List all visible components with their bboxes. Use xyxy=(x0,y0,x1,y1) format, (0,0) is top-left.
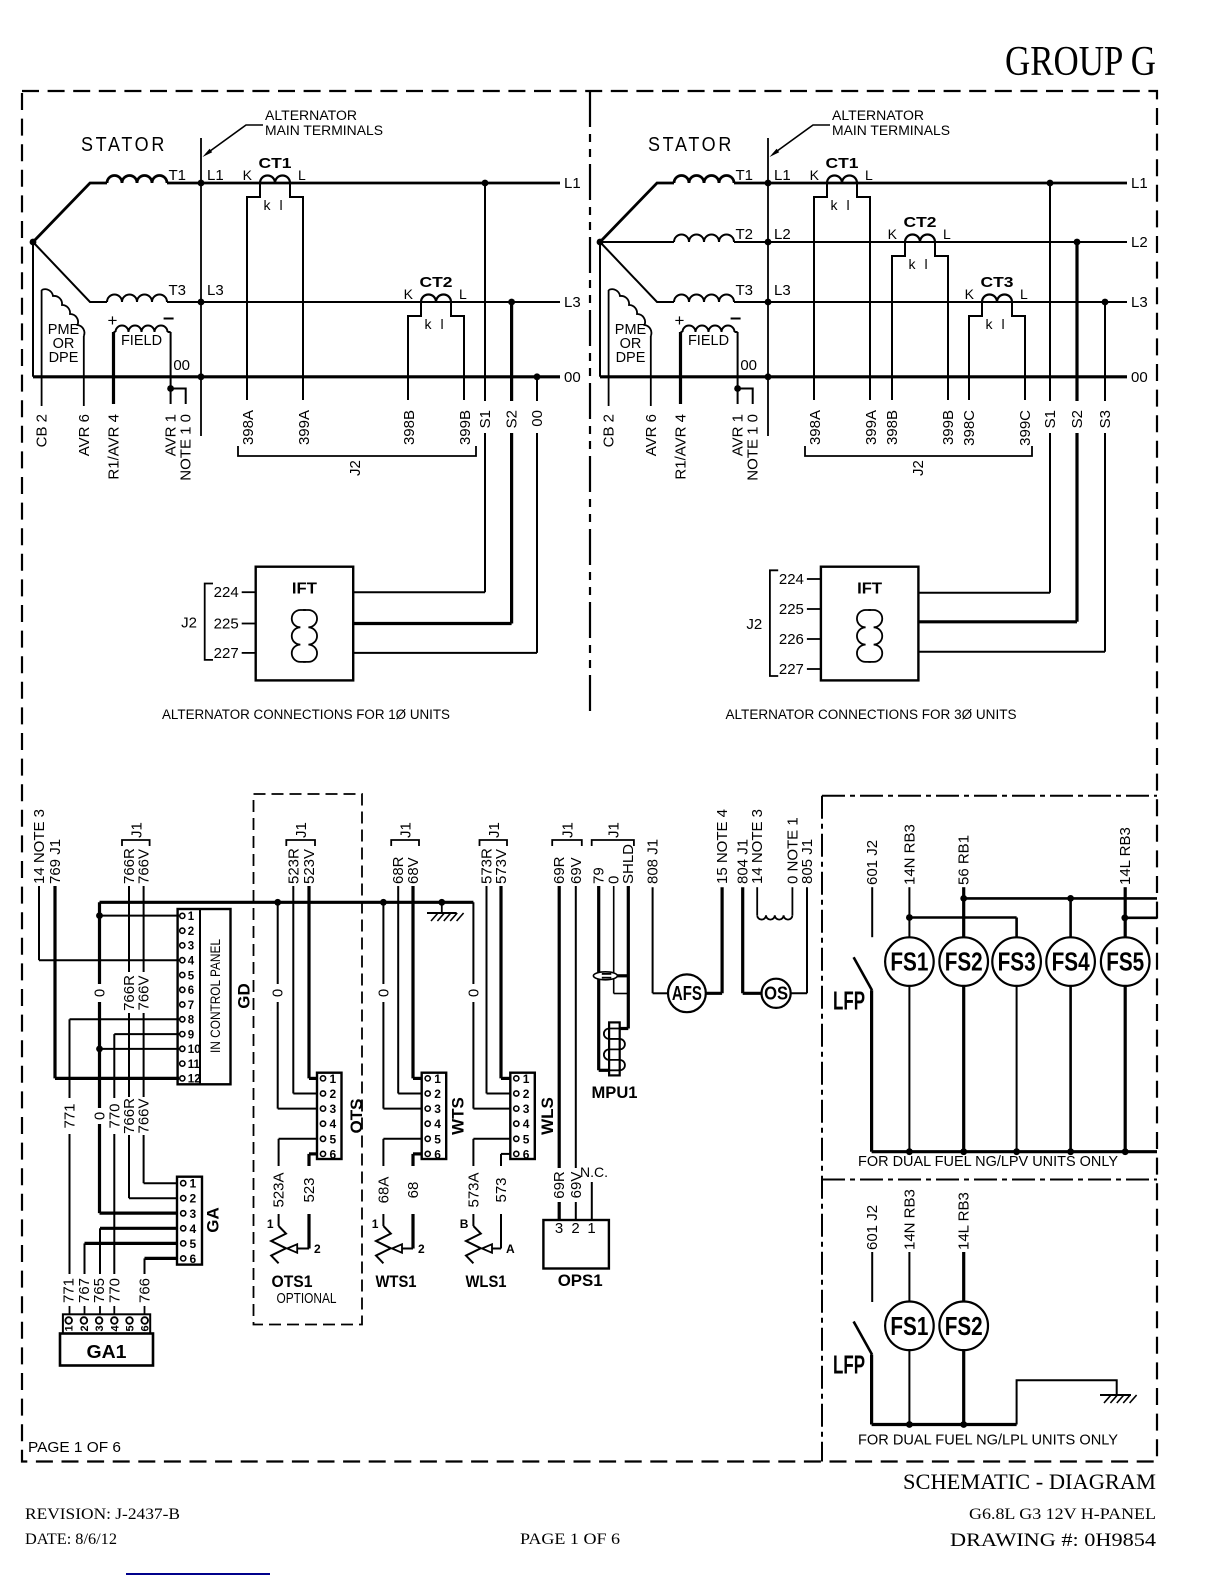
svg-text:S3: S3 xyxy=(1097,410,1114,428)
svg-text:k: k xyxy=(425,316,433,332)
svg-text:6: 6 xyxy=(188,985,194,997)
svg-text:L3: L3 xyxy=(1131,294,1148,311)
svg-text:5: 5 xyxy=(523,1132,530,1146)
svg-text:J2: J2 xyxy=(910,460,927,476)
svg-text:4: 4 xyxy=(330,1117,337,1131)
svg-text:S2: S2 xyxy=(504,410,521,428)
svg-text:L3: L3 xyxy=(774,282,791,299)
svg-text:GROUP G: GROUP G xyxy=(1005,39,1156,85)
svg-text:K: K xyxy=(965,286,975,302)
svg-text:2: 2 xyxy=(314,1242,321,1256)
svg-text:523V: 523V xyxy=(301,849,318,884)
svg-text:CT3: CT3 xyxy=(981,274,1014,291)
svg-text:399A: 399A xyxy=(296,410,313,445)
svg-text:L: L xyxy=(1020,286,1028,302)
svg-text:J1: J1 xyxy=(128,822,145,838)
svg-text:224: 224 xyxy=(779,571,804,588)
svg-text:LFP: LFP xyxy=(833,1350,865,1380)
svg-text:J1: J1 xyxy=(293,822,310,838)
svg-text:WLS: WLS xyxy=(538,1097,557,1135)
svg-text:227: 227 xyxy=(214,645,239,662)
svg-text:11: 11 xyxy=(188,1059,201,1071)
svg-text:7: 7 xyxy=(188,1000,194,1012)
svg-text:14L RB3: 14L RB3 xyxy=(956,1192,973,1250)
svg-text:10: 10 xyxy=(188,1044,201,1056)
svg-text:226: 226 xyxy=(779,631,804,648)
svg-text:L1: L1 xyxy=(564,175,581,192)
svg-text:J2: J2 xyxy=(746,616,762,633)
svg-text:573: 573 xyxy=(493,1177,510,1202)
svg-text:GD: GD xyxy=(235,983,254,1009)
svg-text:ALTERNATOR: ALTERNATOR xyxy=(832,108,924,123)
svg-text:6: 6 xyxy=(140,1325,152,1331)
svg-text:601 J2: 601 J2 xyxy=(864,840,881,885)
svg-text:STATOR: STATOR xyxy=(81,134,167,156)
svg-text:IN CONTROL PANEL: IN CONTROL PANEL xyxy=(207,939,223,1053)
svg-text:FIELD: FIELD xyxy=(121,333,162,349)
svg-text:0: 0 xyxy=(92,989,109,997)
svg-text:T1: T1 xyxy=(168,167,186,184)
svg-text:4: 4 xyxy=(190,1222,197,1236)
svg-text:770: 770 xyxy=(106,1278,123,1303)
svg-text:OTS: OTS xyxy=(347,1099,366,1134)
svg-text:399B: 399B xyxy=(940,410,957,445)
svg-text:J1: J1 xyxy=(486,822,503,838)
svg-text:523: 523 xyxy=(301,1177,318,1202)
svg-text:3: 3 xyxy=(188,941,194,953)
svg-text:l: l xyxy=(924,256,927,272)
svg-text:14 NOTE 3: 14 NOTE 3 xyxy=(31,809,48,884)
svg-text:L2: L2 xyxy=(1131,234,1148,251)
svg-text:GA1: GA1 xyxy=(87,1342,127,1362)
svg-text:398A: 398A xyxy=(240,410,257,445)
svg-text:L3: L3 xyxy=(564,294,581,311)
svg-text:14N RB3: 14N RB3 xyxy=(901,824,918,885)
svg-text:k: k xyxy=(264,197,272,213)
svg-text:k: k xyxy=(986,316,994,332)
svg-text:DATE: 8/6/12: DATE: 8/6/12 xyxy=(25,1531,117,1548)
svg-text:6: 6 xyxy=(434,1147,441,1161)
svg-text:56 RB1: 56 RB1 xyxy=(956,835,973,885)
svg-text:J1: J1 xyxy=(560,822,577,838)
svg-text:T2: T2 xyxy=(735,226,753,243)
svg-text:GA: GA xyxy=(204,1207,223,1233)
svg-text:523R: 523R xyxy=(285,848,302,884)
svg-text:9: 9 xyxy=(188,1029,194,1041)
svg-text:FS5: FS5 xyxy=(1106,947,1144,977)
svg-text:l: l xyxy=(846,197,849,213)
svg-text:1: 1 xyxy=(523,1072,530,1086)
svg-text:766V: 766V xyxy=(136,975,153,1010)
svg-text:399A: 399A xyxy=(863,410,880,445)
svg-text:FS4: FS4 xyxy=(1052,947,1090,977)
svg-text:227: 227 xyxy=(779,661,804,678)
svg-text:1: 1 xyxy=(64,1325,76,1331)
svg-text:IFT: IFT xyxy=(292,581,317,598)
svg-text:WLS1: WLS1 xyxy=(466,1272,507,1291)
svg-text:L: L xyxy=(943,226,951,242)
svg-text:R1/AVR 4: R1/AVR 4 xyxy=(106,414,123,480)
svg-text:FIELD: FIELD xyxy=(688,333,729,349)
svg-text:2: 2 xyxy=(79,1325,91,1331)
svg-text:4: 4 xyxy=(109,1325,121,1332)
svg-text:+: + xyxy=(108,311,118,330)
svg-text:1: 1 xyxy=(188,911,195,923)
svg-text:00: 00 xyxy=(740,357,757,374)
svg-text:00: 00 xyxy=(564,369,581,386)
svg-text:69V: 69V xyxy=(568,1172,585,1199)
svg-text:00: 00 xyxy=(173,357,190,374)
svg-text:CT2: CT2 xyxy=(904,214,937,231)
svg-text:AFS: AFS xyxy=(672,983,702,1005)
svg-text:6: 6 xyxy=(330,1147,337,1161)
svg-text:L1: L1 xyxy=(1131,175,1148,192)
svg-text:ALTERNATOR CONNECTIONS FOR 1Ø: ALTERNATOR CONNECTIONS FOR 1Ø UNITS xyxy=(162,707,450,722)
svg-text:SCHEMATIC - DIAGRAM: SCHEMATIC - DIAGRAM xyxy=(903,1469,1156,1494)
svg-text:1: 1 xyxy=(434,1072,441,1086)
svg-text:SHLD: SHLD xyxy=(620,844,637,884)
svg-text:523A: 523A xyxy=(271,1172,288,1207)
svg-text:FS1: FS1 xyxy=(890,1311,928,1341)
svg-text:3: 3 xyxy=(330,1102,337,1116)
svg-text:B: B xyxy=(460,1217,469,1231)
svg-text:OS: OS xyxy=(764,984,788,1004)
svg-text:15 NOTE 4: 15 NOTE 4 xyxy=(714,809,731,884)
svg-text:14 NOTE 3: 14 NOTE 3 xyxy=(749,809,766,884)
svg-text:68V: 68V xyxy=(405,857,422,884)
svg-text:14N RB3: 14N RB3 xyxy=(901,1189,918,1250)
svg-text:CB 2: CB 2 xyxy=(34,414,51,447)
svg-text:R1/AVR 4: R1/AVR 4 xyxy=(673,414,690,480)
svg-text:573V: 573V xyxy=(493,849,510,884)
svg-text:LFP: LFP xyxy=(833,985,865,1015)
svg-text:1: 1 xyxy=(190,1177,197,1191)
svg-text:69R: 69R xyxy=(551,856,568,884)
svg-text:J1: J1 xyxy=(605,822,622,838)
svg-text:WTS: WTS xyxy=(449,1097,468,1135)
svg-text:STATOR: STATOR xyxy=(648,134,734,156)
svg-text:3: 3 xyxy=(94,1325,106,1331)
svg-text:WTS1: WTS1 xyxy=(376,1272,417,1291)
svg-text:MAIN TERMINALS: MAIN TERMINALS xyxy=(265,123,383,138)
svg-text:68A: 68A xyxy=(375,1177,392,1204)
svg-text:6: 6 xyxy=(190,1252,197,1266)
svg-text:K: K xyxy=(810,167,820,183)
svg-text:69R: 69R xyxy=(551,1171,568,1199)
svg-text:805 J1: 805 J1 xyxy=(799,839,816,884)
svg-text:S1: S1 xyxy=(1042,410,1059,428)
svg-text:T3: T3 xyxy=(168,282,186,299)
svg-text:CT1: CT1 xyxy=(826,155,859,172)
svg-text:2: 2 xyxy=(434,1087,441,1101)
svg-text:2: 2 xyxy=(571,1220,579,1237)
svg-text:5: 5 xyxy=(188,970,195,982)
svg-text:l: l xyxy=(1001,316,1004,332)
svg-text:601 J2: 601 J2 xyxy=(864,1205,881,1250)
svg-text:12: 12 xyxy=(188,1074,201,1086)
svg-text:224: 224 xyxy=(214,584,239,601)
svg-text:L3: L3 xyxy=(207,282,224,299)
svg-text:ALTERNATOR: ALTERNATOR xyxy=(265,108,357,123)
svg-text:K: K xyxy=(404,286,414,302)
svg-text:T3: T3 xyxy=(735,282,753,299)
svg-text:J1: J1 xyxy=(398,822,415,838)
svg-text:399B: 399B xyxy=(457,410,474,445)
svg-text:L: L xyxy=(298,167,306,183)
svg-text:NOTE 1 0: NOTE 1 0 xyxy=(745,414,762,481)
svg-text:DRAWING #: 0H9854: DRAWING #: 0H9854 xyxy=(950,1530,1157,1551)
svg-text:REVISION: J-2437-B: REVISION: J-2437-B xyxy=(25,1506,180,1523)
svg-text:398B: 398B xyxy=(884,410,901,445)
svg-text:CT2: CT2 xyxy=(420,274,453,291)
svg-text:A: A xyxy=(506,1242,515,1256)
svg-text:AVR 6: AVR 6 xyxy=(76,414,93,456)
svg-text:FOR DUAL FUEL NG/LPV UNITS ONL: FOR DUAL FUEL NG/LPV UNITS ONLY xyxy=(858,1153,1118,1170)
svg-text:OPTIONAL: OPTIONAL xyxy=(277,1290,337,1307)
svg-text:S1: S1 xyxy=(477,410,494,428)
svg-text:5: 5 xyxy=(190,1237,197,1251)
svg-text:OTS1: OTS1 xyxy=(272,1272,313,1291)
svg-text:766V: 766V xyxy=(136,849,153,884)
svg-text:1: 1 xyxy=(267,1217,274,1231)
svg-text:8: 8 xyxy=(188,1015,195,1027)
svg-text:J2: J2 xyxy=(181,615,197,632)
svg-text:l: l xyxy=(440,316,443,332)
svg-text:0: 0 xyxy=(465,989,482,997)
svg-text:769 J1: 769 J1 xyxy=(47,839,64,884)
svg-text:MAIN TERMINALS: MAIN TERMINALS xyxy=(832,123,950,138)
svg-text:NOTE 1 0: NOTE 1 0 xyxy=(178,414,195,481)
svg-text:L1: L1 xyxy=(774,167,791,184)
svg-text:K: K xyxy=(888,226,898,242)
svg-text:K: K xyxy=(243,167,253,183)
svg-text:DPE: DPE xyxy=(49,350,79,366)
svg-text:766V: 766V xyxy=(136,1098,153,1133)
svg-text:3: 3 xyxy=(523,1102,530,1116)
svg-text:FOR DUAL FUEL NG/LPL UNITS ONL: FOR DUAL FUEL NG/LPL UNITS ONLY xyxy=(858,1432,1118,1449)
svg-text:5: 5 xyxy=(125,1325,137,1331)
svg-text:68: 68 xyxy=(405,1182,422,1199)
svg-text:AVR 6: AVR 6 xyxy=(643,414,660,456)
svg-text:398A: 398A xyxy=(807,410,824,445)
svg-text:L1: L1 xyxy=(207,167,224,184)
svg-text:DPE: DPE xyxy=(616,350,646,366)
svg-text:FS3: FS3 xyxy=(998,947,1036,977)
svg-text:0: 0 xyxy=(375,989,392,997)
svg-text:808 J1: 808 J1 xyxy=(645,839,662,884)
svg-text:J2: J2 xyxy=(347,460,364,476)
svg-text:225: 225 xyxy=(779,601,804,618)
svg-text:PAGE 1 OF 6: PAGE 1 OF 6 xyxy=(520,1531,620,1548)
svg-text:6: 6 xyxy=(523,1147,530,1161)
svg-text:1: 1 xyxy=(372,1217,379,1231)
svg-text:2: 2 xyxy=(418,1242,425,1256)
svg-text:OPS1: OPS1 xyxy=(558,1271,603,1290)
svg-text:771: 771 xyxy=(62,1103,79,1128)
svg-text:ALTERNATOR CONNECTIONS FOR 3Ø: ALTERNATOR CONNECTIONS FOR 3Ø UNITS xyxy=(726,707,1017,722)
svg-text:k: k xyxy=(909,256,917,272)
svg-text:2: 2 xyxy=(523,1087,530,1101)
svg-text:1: 1 xyxy=(587,1220,595,1237)
svg-text:FS2: FS2 xyxy=(945,947,983,977)
svg-text:573A: 573A xyxy=(465,1172,482,1207)
svg-text:00: 00 xyxy=(529,410,546,427)
svg-text:5: 5 xyxy=(330,1132,337,1146)
svg-text:G6.8L G3 12V H-PANEL: G6.8L G3 12V H-PANEL xyxy=(969,1506,1156,1523)
svg-text:4: 4 xyxy=(434,1117,441,1131)
svg-text:L2: L2 xyxy=(774,226,791,243)
svg-text:FS1: FS1 xyxy=(890,947,928,977)
svg-text:0: 0 xyxy=(270,989,287,997)
svg-text:l: l xyxy=(279,197,282,213)
svg-text:+: + xyxy=(675,311,685,330)
svg-text:PAGE 1 OF 6: PAGE 1 OF 6 xyxy=(28,1439,121,1456)
svg-text:CT1: CT1 xyxy=(259,155,292,172)
svg-text:L: L xyxy=(865,167,873,183)
svg-text:3: 3 xyxy=(555,1220,563,1237)
svg-text:4: 4 xyxy=(523,1117,530,1131)
svg-text:398B: 398B xyxy=(401,410,418,445)
svg-text:CB 2: CB 2 xyxy=(601,414,618,447)
svg-text:L: L xyxy=(459,286,467,302)
svg-text:3: 3 xyxy=(434,1102,441,1116)
svg-text:1: 1 xyxy=(330,1072,337,1086)
svg-text:S2: S2 xyxy=(1069,410,1086,428)
svg-text:4: 4 xyxy=(188,956,195,968)
svg-text:T1: T1 xyxy=(735,167,753,184)
svg-text:225: 225 xyxy=(214,616,239,633)
svg-text:3: 3 xyxy=(190,1207,197,1221)
svg-text:5: 5 xyxy=(434,1132,441,1146)
svg-text:IFT: IFT xyxy=(857,581,882,598)
svg-text:2: 2 xyxy=(330,1087,337,1101)
svg-text:2: 2 xyxy=(188,926,194,938)
svg-text:2: 2 xyxy=(190,1192,197,1206)
svg-text:k: k xyxy=(831,197,839,213)
svg-text:FS2: FS2 xyxy=(945,1311,983,1341)
svg-text:766: 766 xyxy=(137,1278,154,1303)
svg-text:69V: 69V xyxy=(568,857,585,884)
svg-text:MPU1: MPU1 xyxy=(592,1083,638,1102)
svg-text:14L RB3: 14L RB3 xyxy=(1117,827,1134,885)
svg-text:00: 00 xyxy=(1131,369,1148,386)
svg-text:398C: 398C xyxy=(961,410,978,446)
svg-text:399C: 399C xyxy=(1017,410,1034,446)
